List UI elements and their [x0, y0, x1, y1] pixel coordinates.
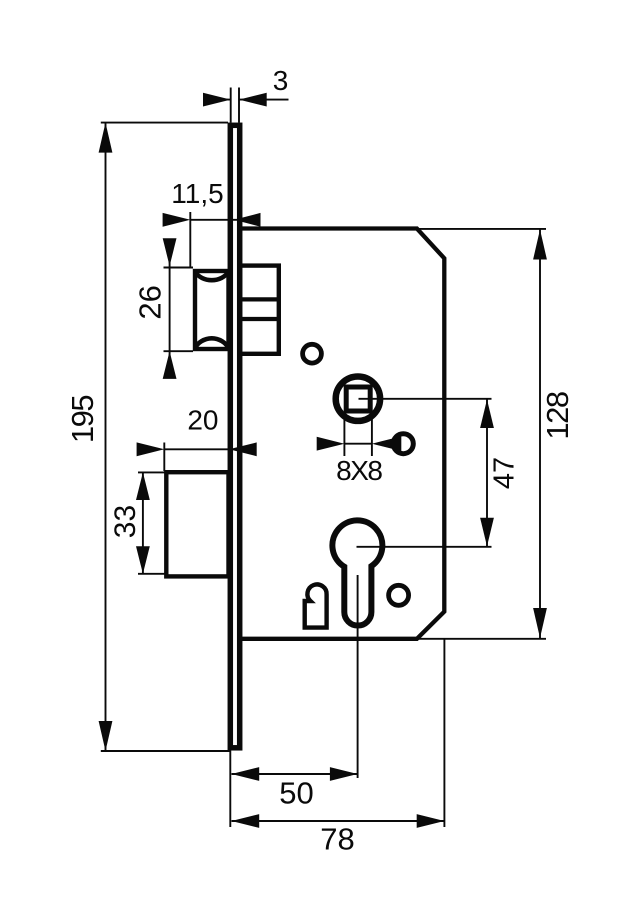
lock case body: [239, 229, 444, 639]
latch body divider lower: [240, 317, 279, 321]
dim 33 line: [142, 472, 144, 573]
dim 8X8 line: [344, 443, 372, 445]
svg-text:8X8: 8X8: [336, 455, 382, 486]
cylinder centre extension to 50: [357, 575, 359, 778]
dim 26 arrows (outside): [163, 238, 177, 266]
dim 195 arrows (inside): [99, 123, 113, 153]
deadbolt: [166, 472, 228, 576]
screw hole upper: [303, 344, 322, 363]
svg-text:33: 33: [109, 505, 142, 538]
dim 50 arrows (inside): [232, 767, 260, 781]
dim 20 extension line: [163, 443, 165, 472]
dim 33 arrows (inside): [136, 472, 150, 500]
svg-text:20: 20: [187, 404, 218, 435]
dim 33 extension lines: [138, 471, 165, 473]
dim 20 arrows (outside): [137, 442, 165, 456]
dim 11,5 tail right: [231, 219, 258, 221]
latch body inside case: [240, 266, 279, 354]
cylinder centre leader line: [357, 546, 492, 548]
dim 11,5 extension line: [189, 212, 191, 267]
spindle follower circle: [336, 377, 380, 421]
svg-text:78: 78: [320, 822, 354, 857]
euro cylinder keyhole profile: [332, 520, 382, 625]
spindle square 8x8: [346, 387, 370, 411]
left extension for 50/78: [229, 751, 231, 828]
dim 3 extension lines: [230, 88, 232, 123]
svg-text:3: 3: [273, 65, 289, 96]
latch bolt head: [195, 271, 229, 349]
screw hole lower: [389, 585, 409, 605]
dim 128 line: [539, 230, 541, 639]
filled half of middle screw hole: [392, 432, 402, 456]
dim 195 line: [105, 123, 107, 751]
dim 195 extension lines: [101, 122, 228, 124]
arrowheads: [99, 93, 547, 828]
cylinder cam hook: [305, 584, 327, 627]
dim 3 arrows (outside, pointing in): [203, 93, 231, 107]
dim 78 arrows (inside): [232, 814, 260, 828]
dim 128 extension lines: [418, 228, 547, 230]
dim 8X8 arrows (outside): [317, 437, 345, 451]
svg-text:11,5: 11,5: [171, 178, 223, 209]
dim 11,5 line: [190, 219, 230, 221]
latch body divider upper: [240, 297, 279, 301]
spindle centre leader line: [359, 398, 492, 400]
svg-text:128: 128: [540, 392, 575, 439]
faceplate: [230, 125, 239, 748]
svg-text:26: 26: [133, 285, 168, 319]
dim 8X8 extension lines: [343, 412, 345, 456]
screw hole middle (half filled by arrow): [393, 434, 413, 454]
dim 3 tail line right: [239, 99, 289, 101]
dim 50 line: [232, 773, 358, 775]
dim 11,5 arrows: [163, 213, 191, 227]
dim 47 line: [486, 400, 488, 547]
svg-text:195: 195: [65, 396, 100, 443]
dim 78 line: [232, 820, 445, 822]
dim 26 line: [169, 244, 171, 375]
dim 128 arrows (inside): [533, 230, 547, 260]
right extension for 78: [443, 639, 445, 827]
latch bolt bottom bevel arc: [195, 338, 229, 348]
dim 26 extension lines: [164, 267, 194, 269]
latch bolt top bevel arc: [195, 272, 229, 280]
thin dimension / extension lines: [101, 88, 546, 828]
dim 3 tail line left: [204, 99, 231, 101]
dim 20 line: [164, 448, 229, 450]
dim 47 arrows (inside): [480, 400, 494, 429]
svg-text:47: 47: [489, 457, 521, 489]
svg-text:50: 50: [279, 776, 313, 811]
